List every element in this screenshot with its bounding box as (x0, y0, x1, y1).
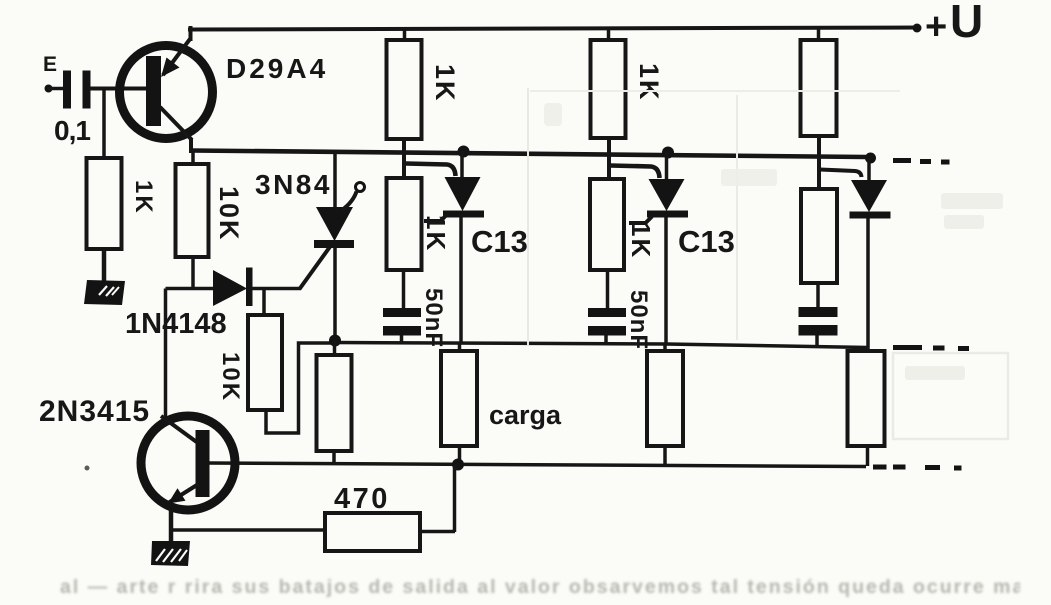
svg-text:10K: 10K (214, 186, 244, 242)
svg-text:carga: carga (489, 400, 562, 430)
svg-text:E: E (43, 53, 57, 76)
svg-text:1K: 1K (421, 215, 451, 252)
svg-text:U: U (950, 0, 983, 47)
svg-text:50nF: 50nF (625, 290, 652, 350)
svg-text:1N4148: 1N4148 (125, 308, 227, 340)
svg-text:C13: C13 (678, 224, 735, 259)
svg-text:1K: 1K (626, 222, 656, 259)
svg-text:+: + (925, 6, 947, 48)
svg-text:10K: 10K (217, 352, 244, 402)
svg-text:3N84: 3N84 (255, 169, 332, 200)
svg-text:D29A4: D29A4 (226, 53, 328, 84)
svg-text:50nF: 50nF (420, 288, 447, 348)
svg-text:C13: C13 (471, 224, 528, 259)
svg-text:1K: 1K (634, 63, 664, 102)
svg-text:1K: 1K (130, 180, 157, 215)
svg-text:2N3415: 2N3415 (39, 395, 150, 428)
svg-text:470: 470 (334, 483, 390, 515)
svg-text:0,1: 0,1 (54, 115, 90, 146)
svg-text:1K: 1K (430, 64, 460, 103)
